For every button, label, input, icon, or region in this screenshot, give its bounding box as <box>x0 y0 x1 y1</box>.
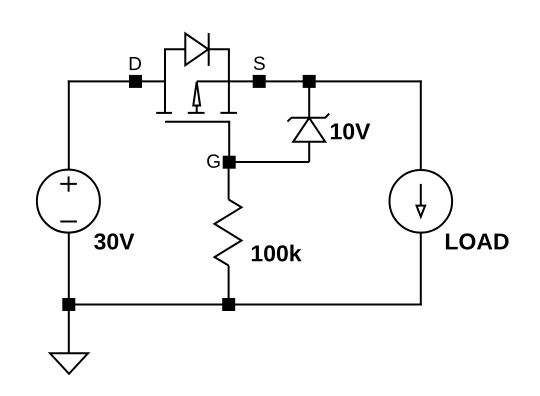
label: value 100k <box>252 245 302 262</box>
wire: zener anode down <box>308 142 310 162</box>
Q1 drain contact bar <box>156 112 172 114</box>
junction node D <box>129 75 142 88</box>
junction node: zener top <box>303 75 316 88</box>
junction node: bottom middle <box>222 298 235 311</box>
Q1 right vertical (source leg) <box>228 49 230 113</box>
wire: zener anode to node G <box>229 161 309 163</box>
label: value 10V <box>331 123 370 139</box>
body diode D1 cathode bar <box>208 33 210 66</box>
junction node: bottom left <box>62 298 75 311</box>
wire: left vertical (top rail down to 30V source) <box>68 80 70 169</box>
zener diode D2 wire from top rail <box>308 81 310 117</box>
wire: node G down to resistor <box>228 162 230 200</box>
voltage source V1 30V circle <box>37 170 100 233</box>
resistor R1 100k zigzag <box>215 200 242 266</box>
current source LOAD circle <box>390 170 453 233</box>
wire: resistor bottom to bottom rail <box>228 266 230 306</box>
label: pin D <box>130 57 141 70</box>
zener D2 cathode right tick <box>325 114 329 118</box>
ground symbol <box>50 353 88 374</box>
wire: bottom rail <box>68 304 422 306</box>
LOAD arrowhead <box>417 206 426 217</box>
zener D2 triangle (anode) <box>293 118 325 142</box>
junction node S <box>253 75 266 88</box>
label: value 30V <box>94 233 134 249</box>
wire: body diode loop left <box>164 48 185 50</box>
V1 minus sign <box>60 221 77 223</box>
wire: LOAD bottom to bottom rail <box>420 233 422 306</box>
LOAD arrow shaft <box>420 184 422 207</box>
Q1 body contact bar <box>188 112 205 114</box>
label: LOAD <box>446 233 509 249</box>
zener D2 cathode left tick <box>288 118 292 122</box>
wire: top rail left segment (left vertical to MOSFET drain) <box>68 80 166 82</box>
transistor Q1 MOSFET left vertical (drain leg) <box>164 49 166 113</box>
Q1 body stem <box>196 105 198 113</box>
junction node G <box>223 156 236 169</box>
Q1 gate plate <box>165 121 229 123</box>
wire: right vertical top (top rail down to LOAD) <box>420 80 422 170</box>
body diode D1 triangle <box>185 33 208 65</box>
ground wire stem <box>68 305 70 354</box>
Q1 body arrow (points up to source wire) <box>193 82 200 106</box>
Q1 source contact bar <box>220 112 237 114</box>
label: pin S <box>254 57 265 70</box>
V1 plus sign <box>60 176 77 191</box>
zener D2 cathode bar <box>291 117 326 119</box>
wire: top rail right segment (MOSFET source to right vertical) <box>197 80 422 82</box>
label: pin G <box>207 154 219 167</box>
wire: gate plate down to node G <box>228 121 230 162</box>
wire: body diode loop right <box>209 48 230 50</box>
wire: 30V source bottom to bottom rail <box>68 233 70 306</box>
